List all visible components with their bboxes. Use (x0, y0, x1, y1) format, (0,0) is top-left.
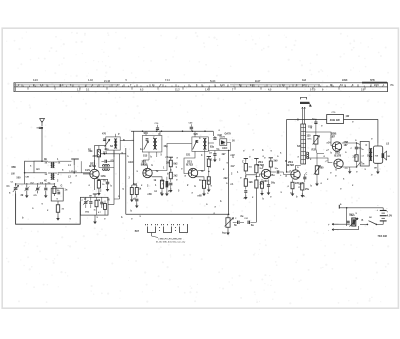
svg-text:B723: B723 (141, 163, 148, 167)
oscillator coil L3 small (103, 165, 105, 167)
dial bar left end cap (13, 82, 15, 92)
dial scale bar bottom line (14, 90, 388, 92)
svg-text:LS: LS (386, 143, 389, 146)
wire osc can leads (113, 150, 115, 157)
wire T5 collector to driver transformer (296, 166, 301, 170)
capacitor C15 detector filter (213, 153, 216, 155)
resistor R23 (301, 183, 304, 190)
svg-text:C: C (366, 144, 368, 147)
switch SK1 (376, 223, 383, 225)
svg-text:osc: osc (85, 211, 90, 214)
wire collectors to output transformer (342, 143, 360, 145)
capacitor C13 chain (169, 182, 172, 184)
ground g10 under emitter wire (349, 167, 351, 169)
svg-text:3E: 3E (44, 158, 47, 161)
svg-text:1.43: 1.43 (205, 89, 210, 92)
wire detector loop (208, 142, 214, 144)
trimmer C31 in cluster (89, 201, 92, 203)
wire gang top bus (16, 183, 55, 185)
wire driver sec to bases (306, 132, 333, 146)
capacitor C21 tone (355, 146, 358, 148)
resistor R1 left input (53, 187, 56, 194)
wire cluster to osc can (113, 150, 115, 204)
wire base feed T1 (83, 173, 90, 175)
thermistor R19 (314, 136, 318, 145)
svg-text:22n: 22n (105, 148, 110, 151)
svg-text:470: 470 (102, 133, 107, 136)
svg-text:Pb: Pb (391, 84, 395, 87)
svg-text:R25: R25 (312, 149, 317, 152)
supply tick osc cluster (93, 193, 97, 195)
svg-text:220: 220 (353, 156, 358, 159)
resistor R2 emitter T1 (97, 181, 100, 189)
supply tick s2 (254, 158, 258, 160)
svg-text:S15: S15 (143, 155, 148, 158)
legend bracket 2 (164, 227, 172, 233)
resistor R30 in cluster (95, 200, 98, 207)
resistor R22 base bias (315, 166, 318, 175)
svg-text:7D4 298: 7D4 298 (378, 235, 388, 238)
resistor R13a (244, 163, 247, 171)
svg-text:23.5: 23.5 (374, 84, 379, 87)
svg-text:560: 560 (264, 180, 269, 183)
wire gang to AGC bottom loop (16, 194, 81, 225)
svg-text:4E: 4E (44, 180, 47, 183)
capacitor C5 (44, 187, 47, 189)
volume potentiometer R12 (226, 218, 230, 228)
dial bar dark segment top right (362, 82, 387, 84)
svg-text:1.25mS: 1.25mS (69, 171, 77, 173)
speaker LS (382, 153, 385, 158)
wire down to output transformer (377, 119, 379, 143)
wire output rail right (344, 118, 378, 120)
svg-text:130: 130 (307, 135, 312, 138)
ground g6 (170, 188, 172, 190)
svg-text:11.2: 11.2 (175, 89, 180, 92)
phone jack J1 plug bar (300, 102, 310, 104)
svg-text:40Ω 1W: 40Ω 1W (330, 118, 340, 122)
driver transformer S4 (301, 124, 306, 164)
wire IF1 leads (145, 131, 147, 135)
wire chain link (246, 174, 257, 176)
capacitor C9 (135, 198, 138, 200)
svg-text:500: 500 (17, 177, 22, 180)
svg-text:n68: n68 (148, 193, 153, 196)
svg-text:B: B (123, 139, 125, 142)
ground g7 (203, 192, 205, 194)
svg-text:1.43: 1.43 (88, 79, 93, 82)
svg-text:6k8: 6k8 (207, 180, 212, 183)
svg-text:1/2S: 1/2S (85, 169, 90, 172)
wire output transformer bottom ground (377, 163, 379, 169)
resistor R3 T1 bias upper (97, 150, 100, 157)
wire rail drop to bias (133, 131, 135, 185)
dial bar pointer ticks (17, 84, 383, 89)
battery terminal tick (338, 205, 340, 209)
svg-text:187: 187 (344, 144, 349, 147)
svg-text:9398: 9398 (342, 79, 348, 82)
svg-text:S20: S20 (194, 133, 199, 136)
wire T1 top lead (94, 160, 96, 169)
svg-text:C: C (153, 137, 155, 140)
ground g9 (227, 231, 229, 233)
svg-text:6H2: 6H2 (218, 134, 223, 137)
capacitor C20 (267, 184, 270, 186)
IF2 winding (203, 138, 205, 142)
capacitor C18 (244, 190, 247, 192)
capacitor C14 detector (213, 137, 216, 139)
legend pointer (152, 236, 159, 238)
svg-text:61-10x GW+ 4.5x GO+ son +Oy: 61-10x GW+ 4.5x GO+ son +Oy (156, 241, 186, 244)
svg-text:C: C (306, 173, 308, 176)
component value labels (7, 115, 390, 235)
capacitor C22 lower left (303, 176, 306, 178)
svg-text:B723: B723 (186, 163, 193, 167)
svg-text:100: 100 (299, 183, 304, 186)
svg-text:n68: n68 (198, 195, 203, 198)
wire AGC feed (228, 151, 230, 215)
svg-text:4k7: 4k7 (222, 153, 227, 156)
capacitor C16 AF coupling (237, 221, 239, 224)
svg-text:7.14: 7.14 (165, 79, 170, 82)
svg-text:SK2: SK2 (349, 214, 354, 217)
capacitor C10 on rail (156, 127, 159, 129)
svg-text:B724: B724 (89, 164, 96, 168)
wire IF1 sec to T2 base (143, 155, 149, 168)
transistor T1 mixer (90, 169, 99, 178)
trimmer C4 (36, 187, 39, 189)
wire IF2 leads (194, 131, 196, 137)
capacitor C40 in box (57, 191, 60, 193)
trimmer C3 (25, 187, 28, 189)
transistor T7 output lower (334, 159, 343, 168)
IF2 transformer can (dashed) (192, 137, 208, 152)
svg-text:14.5: 14.5 (220, 84, 225, 87)
ON/OFF coupling cluster (352, 218, 356, 226)
svg-text:C: C (199, 137, 201, 140)
svg-text:log: log (222, 232, 226, 235)
svg-text:5x14: 5x14 (210, 80, 216, 83)
svg-text:2k2: 2k2 (174, 175, 179, 178)
svg-text:MW: MW (12, 166, 17, 169)
dial bar right end cap (387, 82, 389, 92)
resistor R31 in cluster (104, 204, 107, 210)
output transformer S5 winding (370, 148, 372, 152)
wire chain top to rail (170, 157, 172, 160)
wire AGC vertical line (125, 148, 127, 214)
wire bias node to AGC (101, 153, 126, 155)
resistor R6 emitter T2 (160, 180, 163, 188)
capacitor C11 on rail IF2 (190, 126, 193, 128)
resistor R8 chain (169, 160, 172, 167)
capacitor C32 in cluster (100, 201, 103, 203)
svg-text:x14: x14 (327, 142, 332, 145)
svg-text:AGC: AGC (222, 147, 228, 150)
output transformer left box (360, 142, 369, 167)
wire aerial to tuned circuit (25, 161, 42, 173)
svg-text:B722: B722 (287, 163, 294, 167)
svg-text:NTC: NTC (308, 139, 313, 141)
wire switch to plug (360, 223, 367, 225)
driver transformer secondary bumps (307, 152, 309, 154)
resistor R14a (255, 165, 258, 173)
ground g12 (301, 193, 303, 195)
ground g4 (131, 198, 133, 200)
transistor T4 AF preamp (261, 169, 270, 178)
ground g3 (98, 191, 100, 193)
svg-text:C: C (84, 198, 86, 201)
transistor T3 IF amplifier 2 (188, 168, 197, 177)
phone jack J1 socket (301, 97, 307, 99)
svg-text:B07: B07 (135, 231, 140, 233)
oscillator transformer winding (114, 139, 116, 142)
IF2 trimmer (193, 140, 197, 149)
band switch box (51, 188, 63, 201)
resistor R5 (135, 188, 138, 195)
legend bracket 1 (148, 227, 156, 233)
wire T3 base (184, 151, 195, 173)
wire rail to detector (212, 131, 214, 136)
svg-text:S40: S40 (367, 155, 372, 158)
wire mixer emitter to osc cluster (94, 179, 96, 190)
resistor R20 (355, 155, 358, 162)
svg-text:9x17: 9x17 (255, 80, 261, 83)
resistor R17 T5 emitter (291, 182, 294, 189)
capacitor C19 interstage (276, 170, 278, 173)
IF1 transformer can (dashed) (142, 136, 162, 153)
wire rail to output rail (287, 118, 327, 120)
svg-text:C: C (242, 161, 244, 164)
dial scale bar middle line (14, 86, 388, 88)
IF1 tuning capacitor (146, 138, 149, 140)
wire T3 collector (198, 156, 205, 171)
battery B1 4.5V (380, 210, 387, 212)
tuning gang capacitor C2 (MW) (14, 187, 18, 189)
wire jack leads down (301, 107, 303, 124)
svg-text:46p: 46p (164, 145, 169, 148)
svg-text:3Ω: 3Ω (387, 156, 390, 158)
resistor R10 emitter T3 (202, 180, 205, 188)
oscillator cluster box wire (80, 197, 108, 215)
feed-through tick above bus (71, 158, 79, 160)
svg-text:2F2: 2F2 (103, 152, 108, 155)
svg-text:B: B (297, 119, 299, 122)
svg-text:SK: SK (369, 217, 372, 219)
antenna down wire (41, 129, 43, 161)
wire main HT rail (131, 130, 213, 132)
svg-text:S31: S31 (297, 145, 302, 148)
svg-text:115k: 115k (101, 175, 107, 178)
resistor R4 (130, 188, 133, 195)
svg-text:OA79: OA79 (225, 132, 232, 135)
trimmer C30 in cluster (84, 201, 87, 203)
svg-text:S14: S14 (144, 132, 149, 135)
wire second osc vertical (119, 154, 121, 199)
capacitor C8 osc coupling (104, 160, 106, 163)
svg-text:5k6: 5k6 (133, 183, 138, 186)
svg-text:82p: 82p (210, 146, 215, 149)
svg-text:R: R (330, 84, 332, 87)
dial bar partial second line mid (230, 84, 320, 86)
svg-text:680: 680 (320, 167, 325, 170)
svg-text:3k9: 3k9 (274, 160, 279, 163)
svg-text:n15: n15 (189, 169, 194, 172)
svg-text:AGC: AGC (128, 161, 134, 164)
supply tick s1 (244, 158, 248, 160)
svg-text:B178: B178 (334, 153, 341, 157)
wire y161 extension (58, 160, 72, 162)
svg-text:R: R (285, 160, 287, 163)
ground g40 (57, 216, 59, 218)
wire output transformer top (377, 143, 379, 146)
supply plus lead arrow (332, 223, 339, 225)
wire battery top rail (339, 207, 383, 209)
output transformer secondary box (373, 146, 382, 163)
wire T4 collector coupling (271, 170, 276, 172)
capacitor C12 emitter bypass T2 (166, 181, 169, 187)
transistor T2 IF amplifier (143, 168, 152, 177)
transistor T6 output upper (332, 142, 341, 151)
antenna coupling capacitor C1 (39, 126, 41, 128)
resistor R15 collector T4 (269, 161, 272, 167)
capacitor C35 rail to thermistor (314, 121, 317, 123)
wire T2 collector up to IF2 (147, 167, 149, 169)
dial scale bar top line (14, 82, 388, 84)
IF1 primary winding (153, 138, 155, 142)
svg-text:= MW+PO+PO+MW+GW: = MW+PO+PO+MW+GW (158, 238, 182, 240)
antenna A1 (40, 119, 45, 123)
svg-text:3.94: 3.94 (33, 79, 38, 82)
svg-text:5 7.5: 5 7.5 (310, 89, 316, 92)
resistor R11b chain (207, 177, 210, 185)
resistor R18 feedback box (327, 115, 344, 124)
svg-text:25u: 25u (271, 174, 276, 177)
oscillator transformer can S2 (106, 137, 120, 150)
wire osc net (111, 160, 115, 162)
supply minus lead arrow (332, 229, 339, 231)
resistor R9 chain (169, 172, 172, 179)
svg-text:50u: 50u (271, 182, 276, 185)
ground g8 (214, 158, 216, 160)
svg-text:4.5V: 4.5V (387, 214, 393, 218)
wire to T5 base (284, 172, 291, 175)
svg-text:cm: cm (26, 176, 29, 179)
wire osc cluster bottom stub (94, 215, 96, 219)
ground g5 (161, 192, 163, 194)
svg-text:21.43: 21.43 (104, 80, 111, 83)
svg-text:4n7: 4n7 (231, 165, 236, 168)
wire L1 top to gang (34, 161, 47, 173)
supply tick s3 (269, 157, 273, 159)
wire feedback/supply vertical (286, 119, 288, 172)
capacitor C41 at can left edge (103, 138, 106, 140)
transistor T5 AF driver (291, 170, 300, 179)
svg-text:n15: n15 (143, 169, 148, 172)
wire link tick to bus (80, 161, 82, 173)
capacitor C6 emitter bypass (106, 181, 109, 183)
wire AF bottom rail (126, 213, 229, 215)
wire minus return (339, 226, 359, 230)
resistor R13b (244, 179, 247, 187)
wire input bus (25, 172, 47, 174)
ground g11 (316, 182, 318, 184)
svg-text:25u: 25u (305, 188, 310, 191)
svg-text:187: 187 (330, 135, 335, 139)
IF1 trimmer arrow (144, 141, 149, 150)
svg-text:3x8: 3x8 (302, 79, 307, 82)
svg-text:39k: 39k (166, 162, 171, 165)
ferrite rod antenna winding L2 (bottom) (51, 173, 52, 175)
svg-text:3P2: 3P2 (93, 155, 98, 158)
ground g1 (26, 193, 28, 195)
oscillator trimmer arrow (105, 139, 110, 146)
svg-text:2k2: 2k2 (224, 177, 229, 180)
svg-text:B: B (362, 219, 364, 222)
resistor R11a chain (207, 159, 210, 167)
wire r1 bottom (53, 188, 55, 196)
diode D1 detector OA70 (220, 139, 227, 146)
wire collector T1 up (95, 146, 106, 170)
svg-text:G: G (61, 185, 63, 188)
svg-text:S21: S21 (186, 154, 191, 157)
svg-text:-: - (328, 229, 329, 232)
paper texture (faint) (5, 31, 394, 304)
wire divider to T4 base (256, 174, 261, 177)
resistor R14b (255, 180, 258, 188)
dial bar partial second line left (14, 84, 120, 86)
resistor R40 below box (56, 205, 59, 213)
svg-text:5PB: 5PB (370, 79, 375, 82)
svg-text:1k8: 1k8 (249, 181, 254, 184)
ferrite rod antenna winding L1 (top) (50, 162, 53, 164)
resistor R16 T4 emitter (261, 182, 264, 189)
capacitor C17 (247, 221, 249, 224)
legend bracket 3 (180, 227, 188, 233)
ground g2 (45, 193, 47, 195)
wire osc can to rail drop (120, 140, 134, 142)
legend dots (159, 227, 160, 228)
